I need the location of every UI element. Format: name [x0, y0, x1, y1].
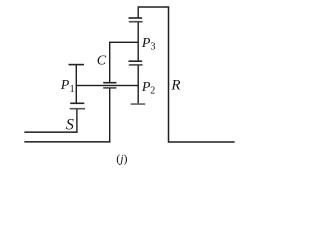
carrier C upper shaft [109, 42, 110, 83]
sun gear S input line [24, 131, 77, 133]
carrier C lower shaft [109, 88, 110, 142]
planet gear P3 shaft [138, 22, 139, 62]
ring gear R frame (top bracket + right vertical + bottom-right foot) [138, 7, 235, 142]
planet gear P2 shaft [138, 65, 139, 103]
svg-text:P: P [60, 78, 70, 93]
mesh P3-P2 lower bar [129, 64, 143, 66]
arm from P1 shaft to P2 shaft [76, 85, 139, 86]
sun gear S shaft [76, 109, 77, 132]
planet gear P2 bottom bar [131, 103, 146, 105]
carrier mesh upper bar [103, 82, 116, 84]
carrier mesh lower bar [103, 87, 116, 89]
svg-text:1: 1 [70, 84, 75, 95]
svg-text:C: C [97, 54, 107, 69]
svg-text:3: 3 [151, 42, 156, 53]
svg-text:S: S [66, 117, 74, 134]
svg-text:(j): (j) [116, 152, 127, 166]
mesh P1-S lower bar [70, 108, 85, 110]
svg-text:P: P [141, 36, 151, 51]
mesh R-P3 lower bar [129, 21, 143, 23]
shaft from top bracket down to R-P3 mesh [138, 7, 139, 18]
svg-text:2: 2 [150, 86, 155, 97]
svg-text:R: R [170, 78, 180, 94]
planet gear P1 shaft [76, 65, 77, 104]
mesh P3-P2 upper bar [129, 60, 143, 62]
mesh P1-S upper bar [70, 103, 84, 105]
bottom-left frame line [24, 141, 110, 143]
carrier C arm to P3 shaft [109, 42, 139, 43]
planet gear P1 top bar [69, 64, 85, 66]
mesh R-P3 upper bar [129, 17, 143, 19]
